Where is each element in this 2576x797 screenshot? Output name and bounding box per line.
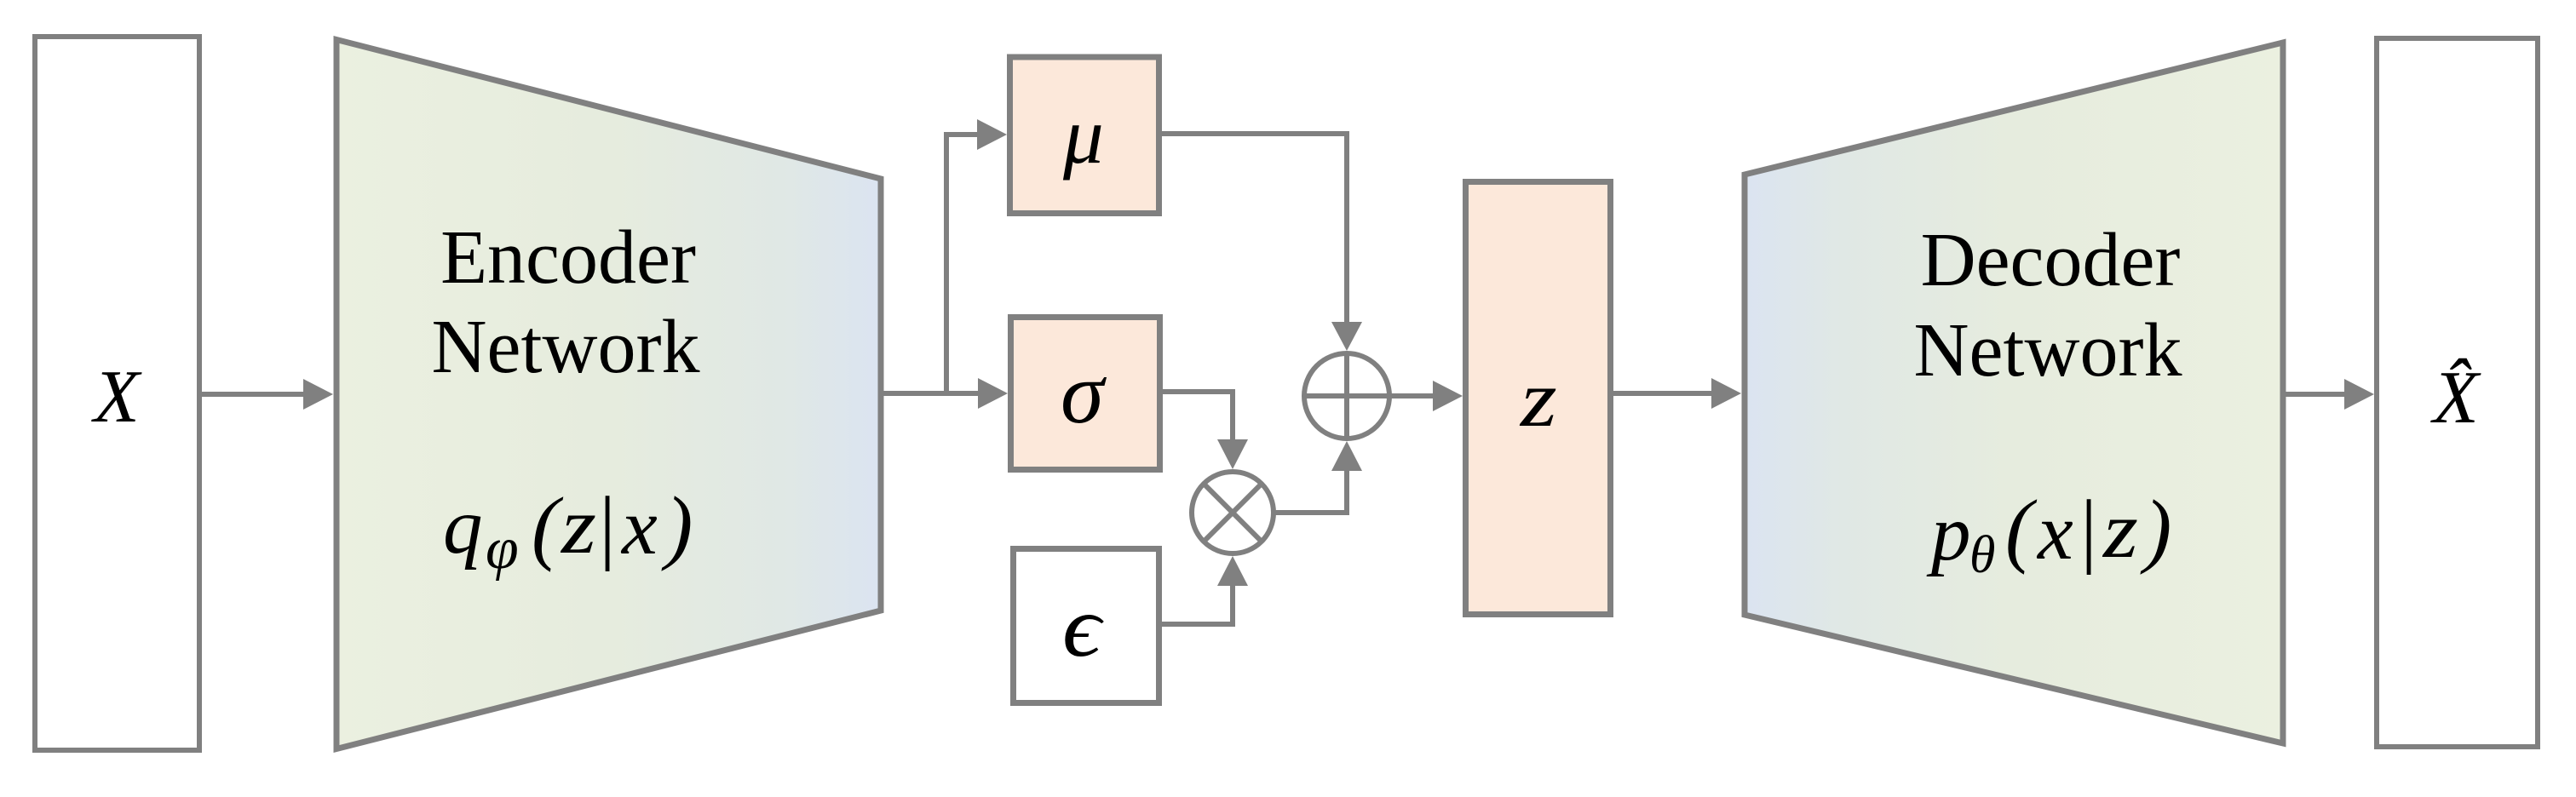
svg-text:z: z bbox=[560, 481, 596, 571]
svg-text:Network: Network bbox=[1914, 308, 2182, 393]
wire z to decoder bbox=[1613, 378, 1741, 409]
svg-text:φ: φ bbox=[486, 516, 519, 582]
wire mu to oplus bbox=[1162, 131, 1362, 351]
label p_theta(x|z) bbox=[1926, 484, 2171, 584]
encoder trapezoid bbox=[336, 40, 881, 749]
svg-text:x: x bbox=[2036, 488, 2073, 576]
svg-text:ϵ: ϵ bbox=[1062, 579, 1104, 675]
svg-text:(: ( bbox=[532, 481, 564, 572]
svg-text:|: | bbox=[2076, 484, 2099, 575]
svg-text:Decoder: Decoder bbox=[1921, 218, 2181, 302]
wire branch to mu with arrowhead bbox=[944, 119, 1007, 150]
svg-text:σ: σ bbox=[1061, 345, 1107, 442]
svg-text:θ: θ bbox=[1969, 526, 1995, 584]
box mu bbox=[1010, 57, 1159, 214]
output box X-hat bbox=[2377, 38, 2538, 747]
otimes multiply node bbox=[1192, 472, 1274, 553]
wire epsilon to otimes bbox=[1162, 556, 1248, 627]
svg-text:X: X bbox=[91, 356, 142, 439]
svg-text:μ: μ bbox=[1062, 90, 1104, 181]
wire oplus to z bbox=[1389, 381, 1463, 411]
wire branch to sigma with arrowhead bbox=[946, 378, 1008, 409]
decoder trapezoid bbox=[1745, 43, 2283, 743]
wire otimes to oplus bbox=[1274, 441, 1362, 515]
oplus add node bbox=[1304, 353, 1389, 439]
wire encoder to branch junction bbox=[881, 391, 949, 396]
svg-text:Encoder: Encoder bbox=[440, 215, 696, 300]
svg-text:z: z bbox=[2102, 485, 2138, 575]
svg-text:Network: Network bbox=[432, 305, 700, 389]
wire X to encoder bbox=[202, 379, 333, 410]
box z bbox=[1466, 182, 1611, 615]
svg-text:(: ( bbox=[2005, 484, 2038, 575]
wire decoder to output box bbox=[2286, 379, 2374, 410]
input box X bbox=[35, 37, 199, 750]
svg-text:X̂: X̂ bbox=[2430, 357, 2481, 439]
label Encoder Network bbox=[432, 215, 700, 389]
box epsilon bbox=[1014, 549, 1159, 703]
label Decoder Network bbox=[1914, 218, 2182, 393]
svg-text:p: p bbox=[1926, 490, 1971, 577]
svg-text:x: x bbox=[620, 483, 658, 571]
label q_phi(z|x) bbox=[443, 480, 693, 582]
svg-text:|: | bbox=[595, 480, 618, 571]
svg-text:q: q bbox=[443, 483, 483, 571]
svg-text:): ) bbox=[661, 480, 693, 571]
wire branch vertical bbox=[944, 132, 949, 391]
box sigma bbox=[1011, 318, 1160, 470]
svg-text:z: z bbox=[1519, 355, 1557, 444]
wire sigma to otimes bbox=[1163, 389, 1248, 469]
svg-text:): ) bbox=[2140, 484, 2171, 575]
